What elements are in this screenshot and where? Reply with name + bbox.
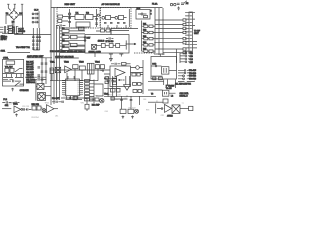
svg-text:25WKG: 25WKG bbox=[18, 31, 25, 33]
svg-text:TR41: TR41 bbox=[104, 93, 109, 95]
wire bbox=[96, 45, 126, 47]
left input row 2 bbox=[0, 29, 8, 31]
motor M1 bbox=[38, 93, 46, 101]
row RA bbox=[178, 69, 195, 71]
amp chain labels bbox=[50, 62, 100, 64]
wire bbox=[169, 69, 177, 71]
wire bbox=[104, 88, 121, 90]
resistor network RN1 bbox=[85, 80, 95, 104]
svg-text:T7: T7 bbox=[182, 103, 184, 105]
wire row bbox=[52, 101, 63, 103]
oscillator sub-enclosure E5 bbox=[151, 57, 177, 80]
mixer X1 bbox=[172, 105, 180, 114]
svg-text:PL2: PL2 bbox=[3, 99, 7, 101]
svg-text:REG UNIT: REG UNIT bbox=[65, 4, 76, 6]
capacitor row CR4 bbox=[180, 61, 190, 63]
resistor R47 bbox=[159, 77, 163, 80]
svg-text:5: 5 bbox=[151, 10, 152, 12]
resistor R38c bbox=[138, 90, 142, 93]
svg-text:OPERATE: OPERATE bbox=[20, 89, 30, 92]
svg-text:2: 2 bbox=[66, 82, 67, 84]
row bbox=[148, 76, 164, 81]
svg-text:R4: R4 bbox=[62, 40, 64, 42]
regulator U1 bbox=[58, 15, 63, 18]
lamp rows upper bbox=[25, 76, 46, 78]
svg-text:R5: R5 bbox=[62, 46, 64, 48]
svg-text:R53 R54: R53 R54 bbox=[32, 117, 39, 119]
left input row 1 bbox=[0, 26, 8, 28]
lamp LPa bbox=[68, 13, 70, 15]
wire top rail bbox=[51, 7, 163, 9]
input nodes bbox=[84, 37, 86, 39]
svg-text:R51 R52: R51 R52 bbox=[32, 104, 39, 106]
transistor TR1 bbox=[102, 16, 105, 19]
svg-text:TR22: TR22 bbox=[64, 62, 69, 64]
svg-text:C52 C53: C52 C53 bbox=[22, 106, 29, 108]
resistor R6 bbox=[79, 27, 85, 30]
resistor R32 bbox=[112, 78, 116, 81]
capacitor row CR2 bbox=[180, 55, 190, 57]
svg-text:6: 6 bbox=[66, 90, 67, 92]
svg-text:TP2 2V0: TP2 2V0 bbox=[189, 73, 196, 75]
bridge rectifier BR1 bbox=[9, 9, 18, 20]
capacitor C9 bbox=[177, 3, 180, 4]
transistor TR2 bbox=[115, 16, 118, 19]
svg-text:T6 465: T6 465 bbox=[166, 88, 172, 90]
antenna symbol bbox=[181, 1, 187, 5]
resistor R3 bbox=[60, 33, 85, 35]
capacitor C8 bbox=[13, 30, 16, 31]
resistor R38 bbox=[111, 97, 114, 100]
coil L3 bbox=[162, 67, 169, 74]
op-amp U10 bbox=[14, 106, 21, 113]
parts rows bbox=[26, 61, 35, 84]
wire bbox=[3, 74, 24, 77]
input column comps bbox=[104, 70, 110, 78]
svg-text:R73: R73 bbox=[146, 110, 149, 112]
IC U4 bbox=[105, 16, 110, 20]
wire column bbox=[42, 58, 46, 84]
lamp LP3 bbox=[135, 109, 139, 113]
wire drops bbox=[50, 69, 98, 81]
capacitor row CR1 bbox=[180, 52, 190, 54]
IC U3 bbox=[76, 22, 90, 27]
wire stub top bbox=[156, 54, 165, 57]
module box M1 bbox=[57, 8, 100, 29]
svg-text:AE: AE bbox=[186, 2, 189, 5]
resistor R31 bbox=[122, 63, 127, 66]
resistor R7 bbox=[101, 44, 105, 48]
wire signal chain bbox=[50, 69, 104, 71]
svg-text:UNIT: UNIT bbox=[194, 33, 199, 35]
tee stub bbox=[119, 54, 123, 57]
svg-text:SW1: SW1 bbox=[1, 51, 6, 53]
svg-text:12: 12 bbox=[77, 88, 79, 90]
svg-text:C61: C61 bbox=[115, 99, 118, 101]
wire bbox=[2, 108, 11, 110]
connector J1 bbox=[185, 12, 197, 52]
wire collector bbox=[15, 27, 52, 34]
tee arrow bbox=[109, 54, 113, 61]
svg-text:F1 2A: F1 2A bbox=[152, 3, 158, 6]
IC U2a bbox=[75, 15, 84, 20]
svg-text:R71 R72: R71 R72 bbox=[129, 108, 136, 110]
IC U5 bbox=[118, 16, 123, 20]
AC terminal T2 bbox=[21, 4, 23, 12]
row RC bbox=[178, 75, 195, 77]
module box M2 bbox=[101, 8, 132, 29]
wire row C bbox=[155, 27, 183, 29]
svg-text:8: 8 bbox=[66, 94, 67, 96]
wire vertical right bbox=[177, 49, 181, 63]
wire vertical bbox=[155, 103, 157, 113]
wire bus to connector bbox=[111, 28, 138, 30]
wire bbox=[131, 68, 144, 75]
svg-text:CR1: CR1 bbox=[161, 115, 165, 117]
switch S2 bbox=[15, 69, 23, 73]
svg-text:TP3 6V3: TP3 6V3 bbox=[189, 76, 196, 78]
resistor R2 bbox=[60, 27, 85, 29]
svg-text:TR52: TR52 bbox=[45, 103, 49, 105]
svg-text:6: 6 bbox=[151, 14, 152, 16]
row RD bbox=[178, 78, 195, 80]
svg-text:R55: R55 bbox=[78, 95, 81, 97]
op-amp U9 bbox=[124, 85, 131, 91]
input bars bbox=[101, 69, 104, 71]
wire row H bbox=[163, 52, 183, 54]
svg-text:VR1: VR1 bbox=[81, 102, 85, 104]
svg-text:DETAIL B: DETAIL B bbox=[180, 95, 189, 98]
ground bbox=[11, 88, 14, 91]
resistor R46 bbox=[153, 77, 156, 80]
resistor R42 bbox=[37, 106, 41, 110]
bus wire V2 bbox=[53, 8, 55, 105]
resistor R37 bbox=[117, 89, 120, 92]
bus wire V5 bbox=[154, 8, 156, 55]
svg-text:455KC: 455KC bbox=[167, 115, 173, 117]
row r2 bbox=[3, 80, 21, 82]
AC terminal T1 bbox=[14, 4, 16, 9]
capacitor C28 bbox=[155, 65, 156, 67]
connector bracket bbox=[17, 26, 19, 33]
svg-text:C1-3: C1-3 bbox=[34, 9, 39, 11]
svg-text:14: 14 bbox=[77, 84, 79, 86]
capacitor C6 bbox=[95, 19, 98, 25]
lamp pair bbox=[170, 3, 172, 5]
svg-text:R7 R8 R9: R7 R8 R9 bbox=[106, 41, 114, 43]
lamp LPb bbox=[97, 14, 99, 16]
svg-text:C64: C64 bbox=[105, 111, 108, 113]
svg-text:R56: R56 bbox=[95, 95, 98, 97]
svg-text:4: 4 bbox=[66, 86, 67, 88]
capacitor row CR3 bbox=[180, 58, 190, 60]
svg-text:TAG STRIP TS1: TAG STRIP TS1 bbox=[16, 46, 30, 49]
resistor R38e bbox=[138, 83, 142, 86]
wire verticals bbox=[164, 80, 176, 89]
wire row F bbox=[155, 42, 183, 44]
svg-text:OSC: OSC bbox=[152, 64, 157, 66]
bars in E2 bbox=[106, 37, 113, 39]
wire bbox=[126, 63, 131, 65]
wire bbox=[46, 95, 52, 97]
wire vertical bbox=[111, 28, 126, 50]
wire bbox=[36, 80, 51, 101]
ground G3 bbox=[15, 114, 18, 117]
svg-text:3: 3 bbox=[66, 84, 67, 86]
resistor R34 bbox=[105, 77, 109, 80]
wire row D bbox=[155, 31, 183, 33]
capacitor string C4 C5 bbox=[32, 28, 41, 50]
capacitor C10a bbox=[104, 23, 126, 24]
op-amp U13 bbox=[115, 68, 125, 76]
resistor R27 bbox=[95, 65, 99, 69]
capacitor C11 bbox=[106, 29, 110, 32]
wire bbox=[151, 65, 162, 67]
resistor R41 bbox=[32, 106, 36, 110]
wire rails mid bbox=[108, 76, 130, 96]
svg-text:1N4148: 1N4148 bbox=[98, 41, 105, 43]
svg-text:X1: X1 bbox=[156, 101, 158, 103]
IC U7a bbox=[71, 35, 78, 38]
svg-text:7: 7 bbox=[66, 92, 67, 94]
resistor R26 bbox=[79, 66, 85, 70]
IC pin numbers bbox=[66, 80, 79, 96]
capacitor C16 bbox=[107, 81, 114, 82]
svg-text:16: 16 bbox=[77, 80, 79, 82]
row RE bbox=[178, 80, 195, 82]
resistor R11 bbox=[10, 68, 14, 72]
capacitor C24 bbox=[50, 68, 54, 74]
op-amp U11 bbox=[47, 105, 55, 113]
resistor R38b bbox=[133, 90, 137, 93]
IC U7b bbox=[71, 43, 78, 46]
IC U8 bbox=[62, 76, 83, 99]
svg-text:C54: C54 bbox=[63, 95, 66, 97]
resistor R33 bbox=[112, 82, 116, 85]
svg-text:C65: C65 bbox=[118, 94, 121, 96]
wire bbox=[62, 9, 97, 27]
resistor R36 bbox=[110, 89, 115, 92]
wire bbox=[180, 108, 189, 110]
svg-text:T6: T6 bbox=[151, 94, 153, 96]
resistor R40 bbox=[128, 109, 134, 113]
svg-text:1: 1 bbox=[66, 80, 67, 82]
svg-text:C14: C14 bbox=[190, 59, 193, 61]
extra bars bbox=[13, 102, 20, 104]
capacitor C20 bbox=[70, 97, 71, 99]
resistor R39 bbox=[120, 109, 126, 113]
svg-text:FOR COMPONENT VALUES SEE TABLE: FOR COMPONENT VALUES SEE TABLE 2 bbox=[50, 50, 85, 53]
control box E3 bbox=[3, 59, 24, 86]
svg-text:R3: R3 bbox=[62, 34, 64, 36]
junction dots bbox=[154, 19, 163, 49]
left input row 3 bbox=[0, 31, 8, 33]
relay K1 bbox=[92, 44, 97, 49]
wire bbox=[54, 108, 58, 110]
svg-text:SIGNAL COND: SIGNAL COND bbox=[89, 50, 102, 53]
resistor R36b bbox=[132, 73, 136, 76]
wire bbox=[111, 9, 130, 27]
bottom labels bbox=[9, 94, 184, 118]
wire bbox=[61, 97, 87, 99]
svg-text:TR51: TR51 bbox=[13, 104, 18, 106]
svg-text:INPUT: INPUT bbox=[1, 39, 8, 41]
resistor R35 bbox=[105, 81, 109, 84]
amplifier block A1 bbox=[110, 66, 131, 87]
transformer T4 bbox=[87, 63, 94, 74]
transistor TR22 bbox=[65, 66, 72, 73]
svg-text:TR23: TR23 bbox=[79, 62, 84, 64]
resistor R4 bbox=[60, 39, 85, 41]
resistor R5 bbox=[60, 45, 85, 47]
ground G1 bbox=[122, 116, 125, 119]
IF can L1 bbox=[162, 90, 169, 96]
svg-text:C12: C12 bbox=[190, 53, 193, 55]
resistor R44 bbox=[90, 98, 94, 101]
svg-text:C15: C15 bbox=[190, 62, 193, 64]
svg-text:C63: C63 bbox=[143, 99, 146, 101]
bus wire V3 bbox=[56, 26, 58, 100]
svg-text:IC1: IC1 bbox=[76, 12, 79, 14]
lamp LP4 bbox=[42, 109, 46, 113]
resistor R37b bbox=[137, 73, 140, 76]
wire bbox=[2, 33, 23, 35]
lamp LP6 bbox=[136, 66, 140, 70]
wire bbox=[148, 90, 176, 93]
svg-text:15: 15 bbox=[77, 82, 79, 84]
resistor R25 bbox=[73, 65, 78, 69]
arrow wire bbox=[126, 43, 137, 45]
resistor R48 bbox=[163, 99, 168, 103]
svg-text:LS1: LS1 bbox=[55, 115, 58, 117]
capacitor C26 bbox=[157, 107, 164, 109]
wire row A bbox=[155, 19, 183, 21]
caps row bottom bbox=[56, 24, 65, 26]
row r1 bbox=[3, 78, 23, 80]
wire bbox=[69, 9, 71, 27]
resistor R10 bbox=[5, 68, 9, 72]
svg-text:L2: L2 bbox=[171, 96, 173, 98]
wire loop bbox=[94, 84, 103, 96]
bus wire V7 bbox=[162, 8, 164, 55]
wire row bbox=[2, 101, 11, 103]
svg-text:DET: DET bbox=[87, 38, 92, 40]
capacitor C18 bbox=[130, 100, 133, 101]
connector right stubs bbox=[193, 13, 196, 26]
wire bbox=[96, 30, 129, 33]
svg-text:R57: R57 bbox=[109, 94, 112, 96]
bus wire V4 bbox=[59, 26, 61, 100]
switch unit SW2 bbox=[6, 61, 15, 64]
svg-text:5: 5 bbox=[66, 88, 67, 90]
svg-text:IC2: IC2 bbox=[86, 12, 89, 14]
resistor R28 bbox=[100, 65, 104, 69]
bus wire V8 bbox=[142, 60, 144, 94]
capacitor C19 bbox=[23, 108, 32, 110]
capacitor C27 bbox=[118, 79, 125, 81]
relay box K3 bbox=[136, 10, 150, 20]
svg-text:MIC AMP: MIC AMP bbox=[92, 104, 101, 107]
resistor R45 bbox=[95, 98, 99, 101]
crystal XT1 bbox=[189, 106, 193, 110]
svg-text:TP4 9V0: TP4 9V0 bbox=[189, 79, 196, 81]
wire bbox=[36, 108, 43, 110]
wire bbox=[104, 96, 156, 99]
svg-text:R2: R2 bbox=[62, 28, 64, 30]
op-amp U12 bbox=[165, 104, 172, 112]
ground G2 bbox=[131, 116, 134, 119]
svg-text:ALL RES 1/4W 5%: ALL RES 1/4W 5% bbox=[175, 82, 191, 85]
transformer T3 bbox=[55, 67, 60, 72]
wire bbox=[104, 78, 117, 80]
lamp LP5 bbox=[100, 99, 104, 103]
svg-text:TR21: TR21 bbox=[50, 62, 55, 64]
svg-text:TR24: TR24 bbox=[95, 62, 100, 64]
svg-text:AF OSC MODULE: AF OSC MODULE bbox=[102, 3, 121, 6]
bottom mid drops bbox=[122, 96, 140, 109]
resistor R43 bbox=[73, 97, 77, 100]
capacitor C7 bbox=[7, 26, 15, 29]
bus wire V1 bbox=[50, 0, 52, 105]
dashed edge bbox=[134, 52, 155, 54]
wire bbox=[148, 101, 163, 103]
resistor R8 bbox=[109, 44, 113, 48]
wire bbox=[108, 25, 126, 35]
wire bbox=[7, 52, 30, 54]
capacitor C6a bbox=[68, 18, 71, 23]
polarised cap C25 bbox=[85, 104, 89, 111]
svg-text:11: 11 bbox=[77, 90, 79, 92]
capacitor C10 bbox=[101, 29, 105, 32]
capacitor bank C1 C2 C3 bbox=[32, 11, 39, 28]
relay K2 bbox=[37, 84, 44, 90]
capacitor C17 bbox=[120, 100, 123, 101]
comps row above amp bbox=[111, 63, 120, 65]
resistor R1 bbox=[58, 20, 62, 23]
resistor R38d bbox=[133, 83, 137, 86]
wire row G bbox=[155, 48, 183, 50]
wire bridge outputs bbox=[6, 12, 22, 34]
node dots bbox=[107, 96, 127, 97]
svg-text:13: 13 bbox=[77, 86, 79, 88]
IC U2b bbox=[86, 15, 94, 20]
svg-text:PL3 SKT: PL3 SKT bbox=[52, 98, 60, 100]
wire row E bbox=[155, 38, 183, 40]
svg-text:C51: C51 bbox=[9, 104, 12, 106]
svg-text:C13: C13 bbox=[190, 56, 193, 58]
bus wire V6 bbox=[158, 8, 160, 55]
contact row bbox=[138, 13, 147, 15]
row RB bbox=[178, 72, 195, 74]
AC terminal T0 bbox=[7, 4, 11, 10]
capacitor marks bbox=[38, 63, 48, 80]
wire drop bbox=[86, 98, 88, 104]
switch S3 bbox=[15, 82, 24, 85]
resistor R9 bbox=[116, 44, 120, 48]
main board box E2 bbox=[85, 35, 129, 54]
svg-text:C62: C62 bbox=[124, 98, 127, 100]
wire row B bbox=[155, 24, 183, 26]
ground top bbox=[177, 7, 180, 11]
